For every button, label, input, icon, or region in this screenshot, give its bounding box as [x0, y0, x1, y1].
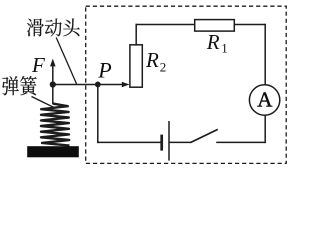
wire: top rail from R1 right to corner [234, 24, 266, 26]
wire: battery to switch pivot [169, 141, 191, 143]
leader line from 滑动头 to wire at P side [56, 38, 76, 85]
spring (coil) [41, 104, 70, 146]
leader line from 弹簧 to spring [32, 97, 55, 108]
wire: rail up to ammeter bottom [264, 115, 266, 143]
rheostat R2 (body) [130, 45, 142, 87]
wire: ammeter top up to top-right corner [264, 24, 266, 85]
ammeter A (circle) [249, 85, 279, 115]
junction node (spring/arrow/wire) [50, 81, 56, 87]
wire: P down to bottom rail [97, 85, 99, 144]
wire: junction down to spring top [52, 85, 54, 105]
svg-text:R: R [145, 48, 159, 72]
svg-text:F: F [31, 53, 45, 77]
svg-text:2: 2 [160, 60, 167, 75]
wire: bottom rail right segment [216, 141, 266, 143]
label 滑动头 (sliding head) [27, 18, 80, 36]
wire: bottom rail left segment to battery [97, 141, 161, 143]
wire: junction to P to slider arrow [53, 84, 123, 86]
svg-text:P: P [97, 58, 111, 83]
resistor R1 (body) [195, 20, 235, 32]
dashed enclosure box [86, 6, 287, 163]
battery: short thick plate (negative) [160, 135, 163, 151]
node P (dot) [95, 82, 101, 88]
force arrow F (upward) [52, 65, 54, 85]
wire: down to R2 top [135, 24, 137, 45]
slider arrow into R2 [122, 82, 130, 88]
label 弹簧 (spring) [2, 76, 37, 95]
switch S1 blade (open) [190, 129, 218, 142]
svg-text:A: A [257, 88, 273, 112]
svg-text:R: R [206, 30, 220, 54]
svg-text:1: 1 [221, 41, 228, 56]
wire: R1 left to above R2 [136, 24, 195, 26]
fixed base (filled block) [27, 146, 79, 157]
battery: long thin plate (positive) [168, 121, 170, 161]
